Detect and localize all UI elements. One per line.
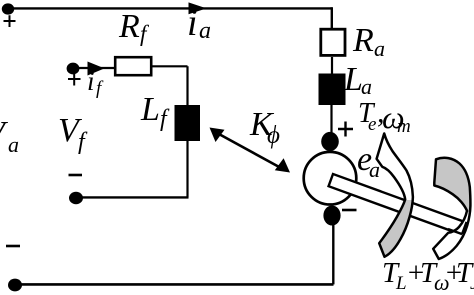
shaft <box>329 174 465 234</box>
wire bottom horizontal <box>15 283 334 286</box>
svg-text:R: R <box>118 8 140 45</box>
node motor bottom terminal <box>323 206 340 226</box>
node field minus terminal <box>69 192 83 204</box>
svg-text:e: e <box>368 114 376 135</box>
wire field vertical through Lf <box>186 66 188 197</box>
inductor La <box>319 74 346 106</box>
inductor Lf <box>175 105 201 141</box>
node + terminal field (Vf plus) <box>67 63 80 75</box>
resistor Ra <box>321 29 345 55</box>
shaft end lines redrawn over arrow 2 <box>448 222 467 234</box>
svg-text:m: m <box>397 116 411 137</box>
current arrow if <box>88 62 105 76</box>
rotation arrow 1 (speed direction, gray tail + hooked head) <box>377 134 413 257</box>
svg-text:a: a <box>361 74 372 99</box>
wire right vertical into Ra <box>331 7 333 29</box>
plus sign Va <box>4 15 16 27</box>
svg-text:a: a <box>8 132 19 157</box>
node + terminal top-left (Va plus) <box>2 3 14 14</box>
rotation arrow 2 (torque direction, gray top + hooked head below) <box>433 158 470 259</box>
svg-text:i: i <box>87 66 95 96</box>
wire Rf to corner <box>152 65 188 67</box>
plus sign Vf <box>68 74 81 86</box>
svg-text:L: L <box>343 61 363 98</box>
svg-text:R: R <box>352 22 374 59</box>
wire field bottom horizontal <box>76 196 189 198</box>
wire top horizontal <box>8 7 332 9</box>
resistor Rf <box>115 57 151 75</box>
plus sign armature <box>338 122 353 137</box>
minus sign Va <box>6 245 20 248</box>
minus sign armature <box>342 209 357 212</box>
wire La to motor top terminal <box>330 105 332 134</box>
svg-text:L: L <box>140 91 160 128</box>
minus sign Vf <box>69 174 83 177</box>
current arrow ia on top wire <box>189 2 207 14</box>
svg-text:a: a <box>199 18 211 44</box>
coupling arrow K_phi upper-left arrowhead <box>210 128 225 143</box>
wire field dot to resistor <box>79 67 114 69</box>
svg-text:a: a <box>374 36 385 61</box>
wire motor bottom vertical <box>332 224 334 284</box>
wire Ra to La <box>331 57 333 75</box>
svg-text:L: L <box>395 273 407 294</box>
node bottom-left terminal (Va minus) <box>8 279 22 292</box>
svg-text:ϕ: ϕ <box>267 122 280 149</box>
coupling arrow K_phi lower-right arrowhead <box>275 158 290 172</box>
node motor top terminal <box>321 132 339 151</box>
svg-text:i: i <box>187 2 198 44</box>
coupling arrow K_phi shaft line <box>218 134 281 169</box>
svg-text:J: J <box>470 273 474 294</box>
motor armature circle M <box>304 152 357 205</box>
